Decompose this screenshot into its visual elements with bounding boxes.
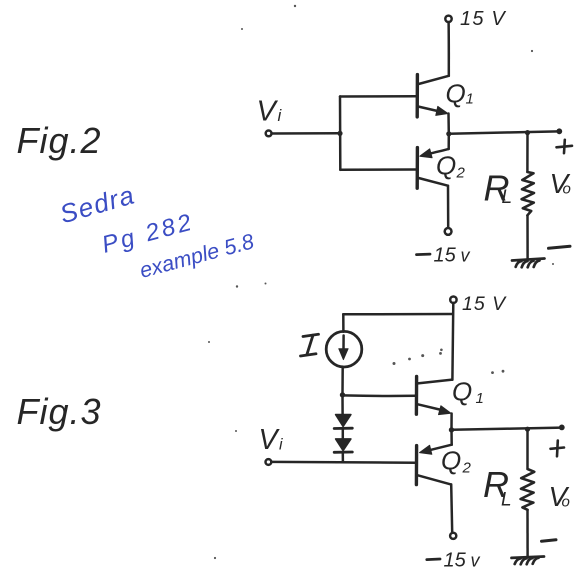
label RL (Fig.2) bbox=[484, 168, 513, 209]
svg-text:Q: Q bbox=[446, 79, 466, 109]
svg-text:2: 2 bbox=[456, 165, 466, 182]
label Fig.3 bbox=[17, 391, 102, 432]
wire Q2 collector to -15V (Fig.2) bbox=[447, 186, 450, 228]
svg-text:15 V: 15 V bbox=[460, 8, 506, 30]
resistor RL (Fig.3) bbox=[521, 469, 535, 510]
label Vo (Fig.3) bbox=[549, 481, 570, 512]
svg-text:Fig.3: Fig.3 bbox=[17, 391, 102, 432]
label minus (Fig.3) bbox=[542, 540, 557, 541]
svg-text:15 V: 15 V bbox=[462, 293, 507, 315]
wire Q1 emitter to output node (Fig.3) bbox=[450, 414, 453, 430]
transistor Q1 (Fig.3 NPN) bbox=[416, 376, 452, 414]
wire output node to Q2 emitter (Fig.2) bbox=[447, 134, 450, 149]
wire D1 to D2 (Fig.3) bbox=[342, 429, 345, 439]
wire output node to Q2 emitter (Fig.3) bbox=[450, 430, 453, 445]
wire D2 to input line (Fig.3) bbox=[342, 452, 345, 462]
node bias junction (Fig.3) bbox=[340, 392, 345, 397]
label Vi (Fig.3) bbox=[259, 424, 284, 456]
wire RL bottom (Fig.2) bbox=[526, 216, 529, 259]
wire +15V to Q1 collector (Fig.2) bbox=[447, 22, 450, 76]
diode D1 (Fig.3) bbox=[334, 415, 352, 429]
wire bias junction to Q1 base (Fig.3) bbox=[343, 394, 416, 397]
node output junction (Fig.3) bbox=[449, 427, 454, 432]
node output terminal (Fig.3) bbox=[559, 425, 565, 431]
wire Q1 emitter to output node (Fig.2) bbox=[447, 114, 450, 134]
svg-text:Sedra: Sedra bbox=[56, 179, 138, 229]
paper specks bbox=[208, 5, 554, 559]
label Q2 (Fig.3) bbox=[441, 446, 472, 477]
label + (Fig.3) bbox=[551, 441, 565, 457]
transistor Q2 (Fig.2 PNP) bbox=[417, 148, 449, 189]
svg-text:Fig.2: Fig.2 bbox=[17, 120, 102, 161]
svg-text:i: i bbox=[278, 106, 283, 125]
svg-text:o: o bbox=[563, 181, 571, 198]
wire RL top (Fig.3) bbox=[526, 429, 529, 468]
svg-text:V: V bbox=[259, 424, 281, 456]
label I (Fig.3) bbox=[301, 334, 319, 356]
label + (Fig.2) bbox=[557, 140, 573, 153]
svg-text:15: 15 bbox=[444, 550, 467, 572]
wire output line (Fig.3) bbox=[452, 428, 562, 430]
diode D2 (Fig.3) bbox=[334, 439, 352, 452]
wire top rail (Fig.3) bbox=[343, 313, 453, 316]
wire RL top (Fig.2) bbox=[526, 133, 529, 172]
annotation example 5.8 (blue) bbox=[137, 229, 256, 283]
svg-text:i: i bbox=[279, 437, 283, 454]
label Vi (Fig.2) bbox=[257, 96, 283, 128]
node RL junction (Fig.2) bbox=[525, 130, 530, 135]
node -15V terminal (Fig.2) bbox=[445, 228, 452, 235]
annotation Pg 282 (blue) bbox=[99, 208, 197, 258]
label Fig.2 bbox=[17, 120, 102, 161]
label -15V (Fig.2) bbox=[417, 253, 431, 256]
svg-text:o: o bbox=[562, 494, 570, 511]
node Vi input terminal (Fig.3) bbox=[266, 459, 272, 465]
svg-text:1: 1 bbox=[466, 91, 474, 108]
label -15V (Fig.3) bbox=[427, 558, 440, 561]
node input junction (Fig.2) bbox=[337, 131, 342, 136]
node RL junction (Fig.3) bbox=[525, 427, 530, 432]
node -15V terminal (Fig.3) bbox=[450, 533, 456, 539]
label Q1 (Fig.3) bbox=[452, 377, 484, 408]
label Q1 (Fig.2) bbox=[446, 79, 474, 109]
svg-text:Q: Q bbox=[436, 151, 456, 181]
svg-text:1: 1 bbox=[476, 390, 484, 407]
wire to Q2 base (Fig.2) bbox=[340, 168, 416, 171]
ground (Fig.3) bbox=[512, 557, 545, 565]
svg-text:Q: Q bbox=[452, 377, 472, 407]
wire Vi input (Fig.2) bbox=[272, 132, 340, 135]
wire +15V vertical (Fig.3) bbox=[451, 303, 454, 380]
node +15V terminal (Fig.2) bbox=[445, 16, 451, 22]
svg-text:15: 15 bbox=[434, 245, 457, 267]
ground (Fig.2) bbox=[512, 259, 545, 268]
wire rail to current source (Fig.3) bbox=[342, 314, 345, 332]
svg-text:v: v bbox=[461, 246, 471, 266]
transistor Q2 (Fig.3 PNP) bbox=[416, 445, 451, 485]
wire RL bottom (Fig.3) bbox=[526, 511, 529, 557]
label Q2 (Fig.2) bbox=[436, 151, 466, 182]
label 15V (Fig.2) bbox=[460, 8, 506, 30]
svg-text:v: v bbox=[471, 551, 481, 571]
node output terminal (Fig.2) bbox=[556, 128, 562, 134]
label 15V (Fig.3) bbox=[462, 293, 507, 315]
wire output line (Fig.2) bbox=[449, 131, 559, 133]
node Vi input terminal (Fig.2) bbox=[266, 131, 272, 137]
wire to Q1 base (Fig.2) bbox=[340, 95, 416, 98]
svg-text:V: V bbox=[257, 96, 279, 128]
wire Q2 collector to -15V (Fig.3) bbox=[451, 484, 452, 532]
resistor RL (Fig.2) bbox=[522, 172, 534, 215]
label RL (Fig.3) bbox=[483, 464, 512, 511]
wire current source to bias junction (Fig.3) bbox=[341, 367, 344, 394]
wire bias junction to diode D1 (Fig.3) bbox=[341, 395, 344, 414]
wire base coupling vertical (Fig.2) bbox=[339, 96, 342, 169]
svg-text:Q: Q bbox=[441, 446, 461, 476]
svg-text:L: L bbox=[501, 490, 512, 511]
svg-text:2: 2 bbox=[462, 460, 472, 477]
label minus (Fig.2) bbox=[549, 246, 571, 248]
transistor Q1 (Fig.2 NPN) bbox=[417, 75, 449, 117]
annotation Sedra (blue) bbox=[56, 179, 138, 229]
wire Vi input line (Fig.3) bbox=[271, 461, 416, 464]
svg-text:L: L bbox=[502, 187, 513, 208]
node +15V terminal (Fig.3) bbox=[450, 297, 456, 303]
node output junction (Fig.2) bbox=[446, 131, 451, 136]
current source I (Fig.3) bbox=[326, 331, 362, 367]
label Vo (Fig.2) bbox=[550, 168, 571, 199]
